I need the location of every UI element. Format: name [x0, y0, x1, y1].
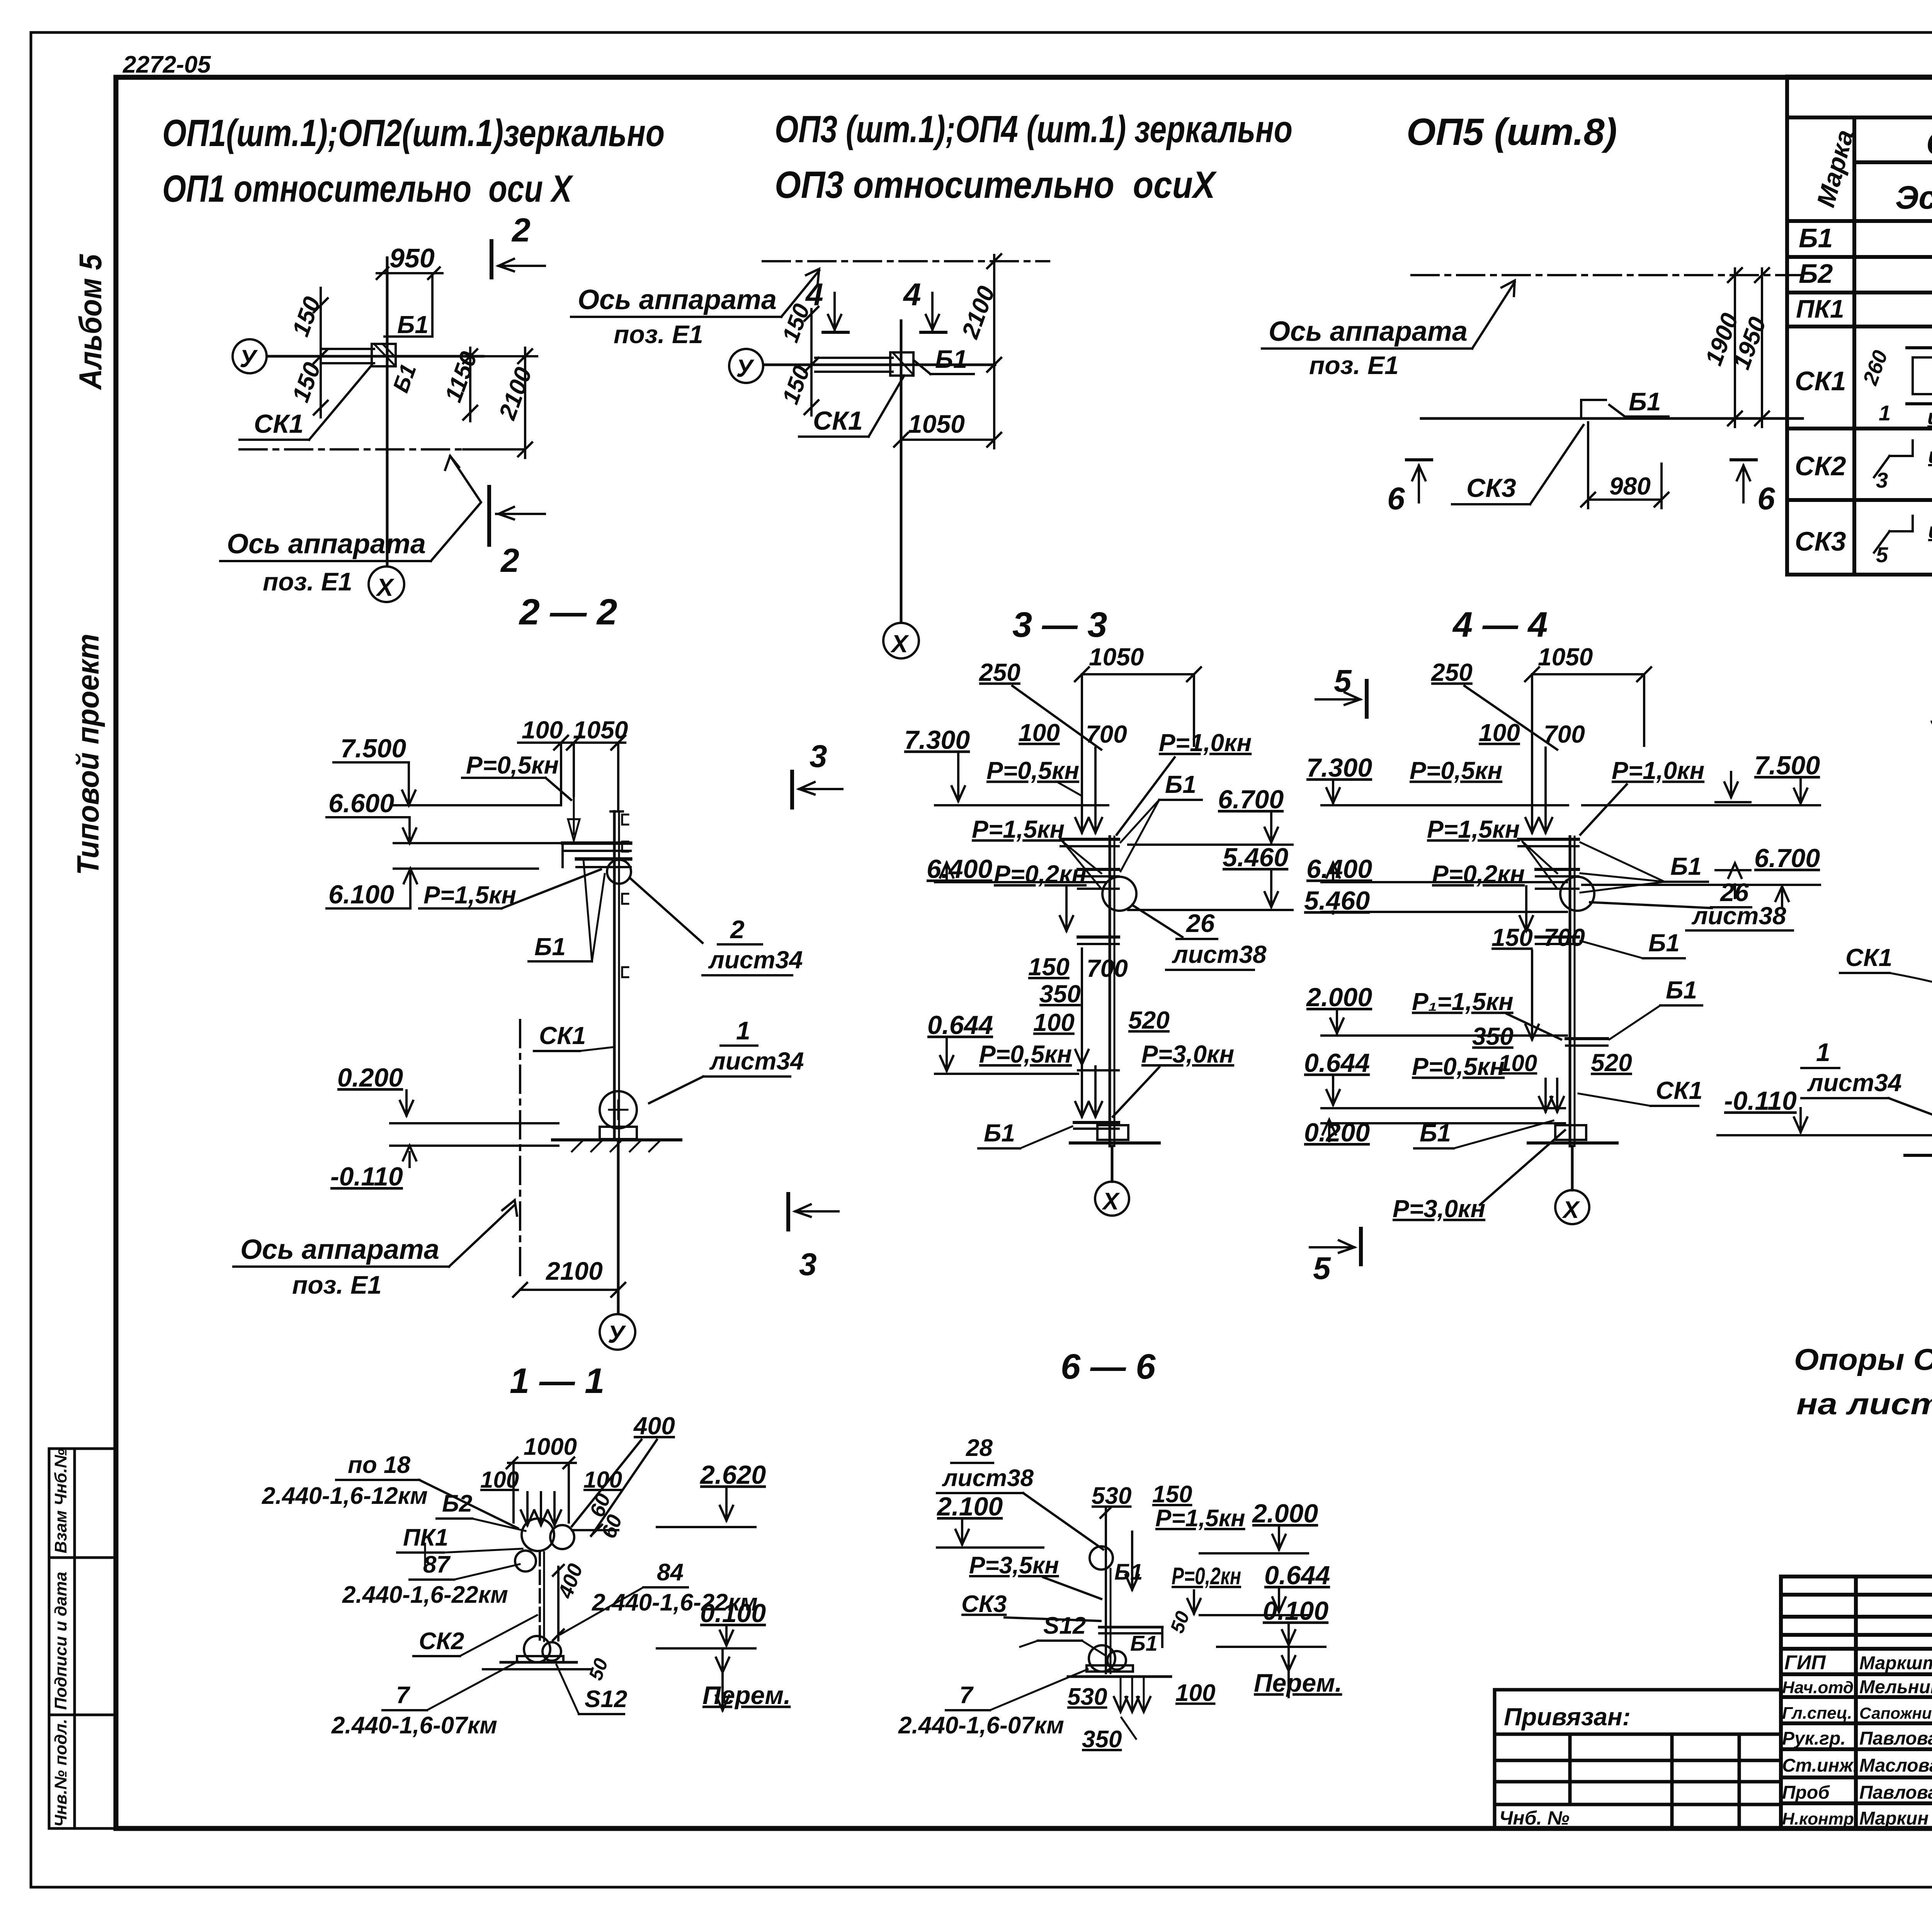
svg-text:Гл.спец.: Гл.спец. — [1782, 1704, 1852, 1723]
svg-text:ш.600: ш.600 — [1928, 518, 1932, 543]
svg-text:5: 5 — [1313, 1251, 1331, 1286]
svg-text:Б2: Б2 — [442, 1490, 472, 1517]
svg-text:6.100: 6.100 — [328, 880, 394, 909]
svg-text:2.440-1,6-07км: 2.440-1,6-07км — [898, 1712, 1064, 1739]
svg-text:Б1: Б1 — [1130, 1631, 1158, 1655]
svg-text:2100: 2100 — [494, 364, 537, 423]
svg-text:5: 5 — [1876, 543, 1888, 567]
svg-text:Б1: Б1 — [1648, 929, 1680, 957]
svg-text:700: 700 — [1087, 954, 1128, 982]
svg-text:Типовой проект: Типовой проект — [71, 634, 105, 875]
svg-text:2: 2 — [511, 212, 531, 249]
svg-text:4: 4 — [903, 277, 921, 312]
svg-text:150: 150 — [1492, 923, 1533, 951]
svg-text:-0.110: -0.110 — [330, 1162, 403, 1191]
svg-text:P=1,0кн: P=1,0кн — [1159, 729, 1252, 757]
svg-text:700: 700 — [1544, 923, 1585, 951]
svg-text:Ось аппарата: Ось аппарата — [1269, 316, 1468, 347]
svg-text:на листе 9.: на листе 9. — [1796, 1387, 1932, 1421]
svg-text:1: 1 — [1816, 1038, 1830, 1066]
svg-text:Чнв.№ подл.: Чнв.№ подл. — [51, 1719, 70, 1827]
svg-text:7.500: 7.500 — [340, 734, 406, 763]
svg-text:X: X — [1562, 1197, 1580, 1223]
svg-text:1: 1 — [1879, 401, 1891, 425]
svg-text:6.600: 6.600 — [328, 789, 394, 818]
svg-text:0.644: 0.644 — [1304, 1048, 1370, 1078]
svg-text:1050: 1050 — [1089, 643, 1144, 671]
svg-text:3 — 3: 3 — 3 — [1012, 605, 1107, 645]
svg-text:P=1,5кн: P=1,5кн — [423, 881, 516, 909]
svg-text:Б1: Б1 — [1114, 1560, 1143, 1585]
svg-text:СК3: СК3 — [1795, 526, 1846, 556]
svg-text:поз. Е1: поз. Е1 — [1309, 351, 1399, 379]
svg-text:лист38: лист38 — [942, 1465, 1034, 1492]
svg-text:СК3: СК3 — [1466, 473, 1516, 503]
svg-text:2.000: 2.000 — [1306, 983, 1372, 1012]
svg-text:X: X — [890, 630, 909, 658]
svg-text:Маркштедер: Маркштедер — [1859, 1653, 1932, 1673]
svg-text:ш.600: ш.600 — [1928, 443, 1932, 468]
svg-text:2.100: 2.100 — [936, 1492, 1003, 1521]
svg-text:P=0,5кн: P=0,5кн — [979, 1040, 1072, 1068]
svg-text:Эскиз: Эскиз — [1895, 179, 1932, 216]
svg-text:100: 100 — [583, 1467, 622, 1493]
svg-text:5 — 5: 5 — 5 — [1930, 695, 1932, 734]
svg-text:2100: 2100 — [545, 1257, 603, 1285]
svg-text:150: 150 — [1028, 953, 1070, 981]
svg-text:100: 100 — [480, 1467, 519, 1493]
svg-text:0.644: 0.644 — [1264, 1561, 1330, 1590]
svg-text:СК1: СК1 — [1656, 1077, 1702, 1104]
svg-text:2: 2 — [500, 542, 519, 579]
svg-text:100: 100 — [1033, 1009, 1075, 1036]
svg-text:Б1: Б1 — [1420, 1119, 1451, 1147]
svg-text:530: 530 — [1067, 1684, 1107, 1710]
svg-text:28: 28 — [966, 1435, 993, 1461]
svg-text:2.000: 2.000 — [1252, 1499, 1318, 1528]
svg-text:лист34: лист34 — [1807, 1069, 1902, 1097]
svg-text:Альбом 5: Альбом 5 — [73, 254, 108, 390]
svg-text:950: 950 — [389, 243, 435, 273]
svg-text:P=1,5кн: P=1,5кн — [1427, 815, 1520, 843]
svg-text:7: 7 — [959, 1682, 974, 1709]
svg-text:X: X — [1102, 1188, 1120, 1215]
svg-text:Маркин: Маркин — [1859, 1808, 1929, 1829]
svg-text:Ось аппарата: Ось аппарата — [578, 284, 777, 315]
svg-text:ГИП: ГИП — [1784, 1651, 1826, 1674]
svg-text:6: 6 — [1387, 481, 1405, 516]
svg-text:0.100: 0.100 — [700, 1599, 766, 1628]
svg-text:СК1: СК1 — [813, 406, 863, 435]
svg-text:Павлова: Павлова — [1859, 1728, 1932, 1749]
svg-text:1 — 1: 1 — 1 — [510, 1361, 604, 1401]
svg-text:У: У — [608, 1320, 626, 1348]
svg-text:Рук.гр.: Рук.гр. — [1782, 1728, 1846, 1749]
svg-text:1050: 1050 — [1538, 643, 1593, 671]
svg-text:Ось аппарата: Ось аппарата — [227, 529, 426, 560]
svg-text:поз. Е1: поз. Е1 — [614, 320, 703, 349]
svg-text:СК3: СК3 — [961, 1591, 1007, 1617]
svg-text:P=3,0кн: P=3,0кн — [1393, 1195, 1485, 1223]
svg-text:100: 100 — [1498, 1050, 1537, 1076]
svg-text:СК1: СК1 — [539, 1022, 586, 1049]
svg-text:Маслова: Маслова — [1859, 1755, 1932, 1776]
svg-text:Б1: Б1 — [1629, 387, 1661, 416]
svg-text:7.300: 7.300 — [904, 725, 970, 755]
svg-text:P₁=1,5кн: P₁=1,5кн — [1412, 988, 1514, 1015]
svg-text:Б1: Б1 — [1165, 770, 1196, 798]
svg-text:СК2: СК2 — [1795, 451, 1846, 481]
svg-text:ш.800: ш.800 — [1927, 405, 1932, 429]
svg-text:980: 980 — [1609, 472, 1651, 500]
svg-text:Перем.: Перем. — [702, 1681, 791, 1709]
svg-text:У: У — [736, 354, 755, 382]
svg-text:Взам Чнб.№: Взам Чнб.№ — [51, 1449, 70, 1553]
svg-text:ОП1(шт.1);ОП2(шт.1)зеркально: ОП1(шт.1);ОП2(шт.1)зеркально — [162, 112, 665, 154]
svg-text:84: 84 — [657, 1559, 684, 1586]
svg-text:P=1,5кн: P=1,5кн — [1155, 1505, 1245, 1532]
svg-text:1050: 1050 — [908, 410, 965, 438]
svg-text:Б1: Б1 — [1670, 852, 1702, 880]
svg-text:Подписи и дата: Подписи и дата — [51, 1572, 70, 1710]
svg-text:87: 87 — [423, 1551, 451, 1578]
svg-text:100: 100 — [1479, 719, 1520, 747]
svg-text:100: 100 — [1175, 1680, 1215, 1706]
svg-text:150: 150 — [1152, 1481, 1192, 1508]
svg-text:лист38: лист38 — [1172, 940, 1267, 968]
svg-text:Б1: Б1 — [935, 345, 967, 373]
svg-text:P=0,5кн: P=0,5кн — [466, 751, 559, 779]
svg-text:2 — 2: 2 — 2 — [519, 592, 617, 633]
svg-text:лист34: лист34 — [709, 1047, 804, 1075]
svg-text:S12: S12 — [1043, 1612, 1086, 1639]
svg-text:5.460: 5.460 — [1223, 843, 1288, 872]
svg-text:50: 50 — [585, 1655, 612, 1683]
svg-text:Б1: Б1 — [1799, 223, 1833, 253]
svg-text:Перем.: Перем. — [1254, 1668, 1342, 1697]
svg-text:СК1: СК1 — [1845, 944, 1892, 971]
svg-text:3: 3 — [799, 1247, 817, 1282]
svg-text:Привязан:: Привязан: — [1504, 1703, 1631, 1731]
svg-text:Б1: Б1 — [397, 311, 429, 338]
svg-text:ОП3 относительно осиX: ОП3 относительно осиX — [775, 163, 1217, 206]
svg-text:0.200: 0.200 — [337, 1063, 403, 1092]
svg-text:P=0,5кн: P=0,5кн — [986, 757, 1079, 784]
svg-text:26: 26 — [1185, 909, 1215, 937]
svg-text:ОП1 относительно оси X: ОП1 относительно оси X — [162, 167, 574, 210]
svg-text:X: X — [376, 573, 395, 601]
svg-text:260: 260 — [1859, 347, 1893, 388]
svg-text:400: 400 — [633, 1412, 675, 1440]
svg-text:100: 100 — [522, 716, 563, 744]
svg-text:Павлова: Павлова — [1859, 1782, 1932, 1803]
svg-text:350: 350 — [1039, 980, 1081, 1008]
svg-text:2: 2 — [730, 915, 745, 944]
svg-text:350: 350 — [1082, 1726, 1122, 1753]
svg-text:поз. Е1: поз. Е1 — [263, 567, 352, 596]
svg-text:Б1: Б1 — [534, 933, 566, 961]
svg-text:Б1: Б1 — [1666, 976, 1697, 1004]
svg-text:ОП5 (шт.8): ОП5 (шт.8) — [1406, 111, 1617, 153]
svg-text:P=0,2кн: P=0,2кн — [1432, 860, 1525, 888]
svg-text:1000: 1000 — [524, 1434, 577, 1460]
svg-text:Б1: Б1 — [984, 1119, 1015, 1147]
svg-text:100: 100 — [1019, 719, 1060, 747]
svg-text:520: 520 — [1591, 1049, 1632, 1077]
svg-text:520: 520 — [1128, 1006, 1170, 1034]
svg-text:6.700: 6.700 — [1218, 785, 1284, 814]
svg-text:1: 1 — [736, 1016, 750, 1045]
svg-text:3: 3 — [810, 739, 827, 774]
svg-text:У: У — [240, 345, 258, 372]
svg-text:-0.110: -0.110 — [1724, 1086, 1797, 1116]
svg-text:S12: S12 — [585, 1686, 627, 1713]
svg-text:6.400: 6.400 — [1306, 854, 1372, 884]
svg-text:6.400: 6.400 — [927, 854, 992, 884]
svg-text:лист38: лист38 — [1691, 902, 1786, 930]
svg-text:0.100: 0.100 — [1263, 1596, 1328, 1626]
svg-text:P=0,2кн: P=0,2кн — [1172, 1563, 1241, 1590]
svg-text:2272-05: 2272-05 — [122, 51, 211, 78]
svg-text:СК1: СК1 — [1795, 366, 1846, 396]
svg-text:700: 700 — [1086, 720, 1127, 748]
svg-text:6: 6 — [1757, 481, 1776, 516]
svg-text:Ось аппарата: Ось аппарата — [240, 1234, 439, 1265]
svg-text:лист34: лист34 — [708, 946, 803, 974]
svg-text:СК2: СК2 — [419, 1628, 464, 1655]
svg-text:Сапожникова: Сапожникова — [1859, 1704, 1932, 1722]
svg-text:P=0,5кн: P=0,5кн — [1412, 1053, 1505, 1080]
svg-text:250: 250 — [979, 658, 1020, 686]
svg-text:3: 3 — [1876, 468, 1888, 492]
svg-text:Н.контр.: Н.контр. — [1782, 1810, 1859, 1828]
svg-text:Опоры ОП1÷ОП5; сечение 1-1 зам: Опоры ОП1÷ОП5; сечение 1-1 замаркированы — [1794, 1342, 1932, 1376]
svg-text:2.620: 2.620 — [699, 1460, 766, 1490]
svg-text:ПК1: ПК1 — [1796, 294, 1844, 323]
svg-text:700: 700 — [1544, 720, 1585, 748]
svg-text:P=1,5кн: P=1,5кн — [972, 815, 1065, 843]
svg-text:Мельников: Мельников — [1859, 1677, 1932, 1697]
svg-text:250: 250 — [1431, 658, 1473, 686]
svg-text:150: 150 — [777, 362, 815, 407]
svg-text:P=3,0кн: P=3,0кн — [1141, 1040, 1234, 1068]
svg-text:СК1: СК1 — [254, 409, 304, 439]
svg-text:350: 350 — [1472, 1022, 1514, 1050]
svg-text:2.440-1,6-07км: 2.440-1,6-07км — [331, 1712, 497, 1739]
svg-text:7.300: 7.300 — [1306, 753, 1372, 782]
svg-text:7.500: 7.500 — [1754, 751, 1820, 780]
svg-text:7: 7 — [396, 1682, 410, 1709]
svg-text:ОП3 (шт.1);ОП4 (шт.1) зеркальн: ОП3 (шт.1);ОП4 (шт.1) зеркально — [775, 108, 1293, 150]
svg-text:P=0,5кн: P=0,5кн — [1410, 757, 1502, 784]
svg-text:Б2: Б2 — [1799, 259, 1833, 289]
svg-text:0.644: 0.644 — [927, 1010, 993, 1040]
svg-text:530: 530 — [1092, 1483, 1131, 1509]
svg-text:6 — 6: 6 — 6 — [1061, 1347, 1156, 1386]
svg-text:Сечение: Сечение — [1926, 125, 1932, 162]
svg-text:2.440-1,6-22км: 2.440-1,6-22км — [342, 1582, 508, 1608]
svg-text:P=1,0кн: P=1,0кн — [1612, 757, 1704, 784]
svg-text:50: 50 — [1166, 1608, 1194, 1636]
svg-text:P=3,5кн: P=3,5кн — [969, 1552, 1059, 1579]
svg-text:2.440-1,6-12км: 2.440-1,6-12км — [262, 1483, 428, 1509]
svg-text:Нач.отд.: Нач.отд. — [1782, 1678, 1858, 1697]
svg-text:6.700: 6.700 — [1754, 844, 1820, 873]
svg-text:P=0,2кн: P=0,2кн — [994, 860, 1087, 888]
svg-text:Проб: Проб — [1782, 1782, 1830, 1803]
svg-text:Чнб. №: Чнб. № — [1499, 1807, 1570, 1829]
svg-text:Ст.инж.: Ст.инж. — [1782, 1755, 1858, 1776]
svg-text:поз. Е1: поз. Е1 — [292, 1270, 382, 1299]
svg-text:по 18: по 18 — [348, 1452, 410, 1478]
svg-text:Марка: Марка — [1811, 127, 1859, 210]
svg-text:4 — 4: 4 — 4 — [1452, 605, 1548, 645]
